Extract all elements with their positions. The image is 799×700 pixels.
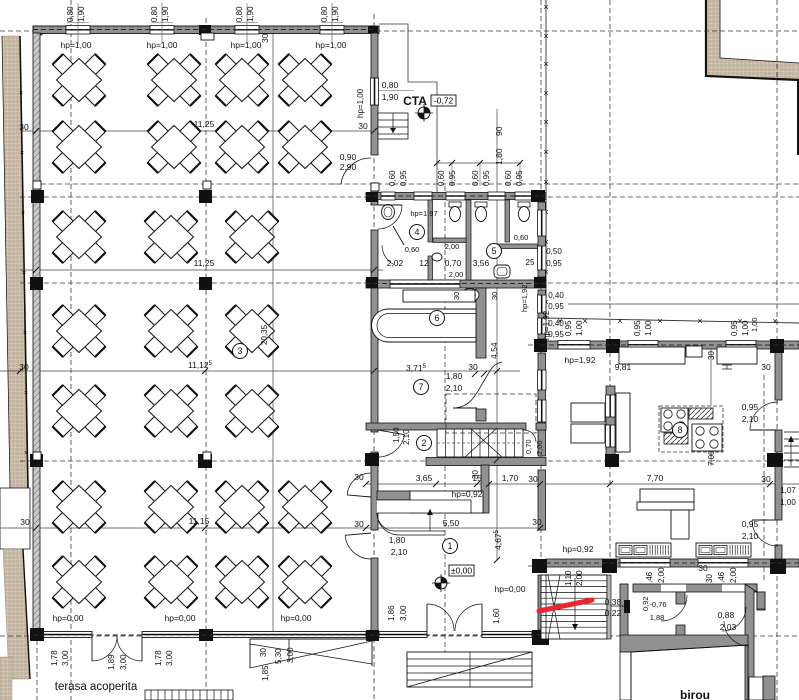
- svg-text:1,85: 1,85: [261, 665, 270, 681]
- svg-text:,46: ,46: [645, 571, 654, 583]
- storage counter: [616, 393, 630, 452]
- svg-text:1,00: 1,00: [741, 320, 750, 336]
- svg-text:hp=1,92: hp=1,92: [520, 285, 529, 312]
- door at stair top: [524, 430, 536, 442]
- svg-text:1,80: 1,80: [389, 535, 406, 545]
- svg-text:hp=0,92: hp=0,92: [452, 489, 483, 499]
- svg-text:1,78: 1,78: [154, 650, 163, 666]
- svg-text:1: 1: [447, 541, 452, 551]
- room1 counter: [377, 491, 483, 535]
- column D6: [532, 559, 547, 573]
- exterior stair E: [784, 432, 799, 467]
- door kitchen right top: [750, 402, 778, 430]
- wall: birou lower band: [620, 635, 748, 652]
- windows top wall: [66, 26, 344, 35]
- table T4-3: [226, 305, 279, 357]
- column F5: [767, 453, 783, 467]
- dim win 150: [150, 6, 170, 22]
- property boundary line with survey marks: [543, 0, 799, 326]
- svg-text:11,25: 11,25: [194, 119, 215, 129]
- svg-text:hp=1,92: hp=1,92: [542, 310, 551, 340]
- cooking island: [659, 406, 723, 452]
- svg-text:×: ×: [543, 147, 548, 157]
- toilet WC1: [449, 202, 461, 222]
- column E5: [605, 454, 619, 467]
- dim bath: [388, 170, 408, 186]
- table T3-3: [226, 211, 279, 263]
- column E4: [606, 339, 620, 353]
- room number 4: [410, 225, 425, 240]
- svg-text:CTA: CTA: [403, 94, 427, 108]
- svg-text:terasa acoperita: terasa acoperita: [55, 681, 138, 693]
- svg-text:2,00: 2,00: [445, 242, 460, 251]
- svg-text:×: ×: [543, 59, 548, 69]
- dim ktop: [564, 320, 584, 336]
- column C2b: [366, 192, 378, 202]
- svg-text:30: 30: [260, 33, 270, 43]
- door room1 left upper: [347, 473, 371, 497]
- svg-text:3,65: 3,65: [416, 473, 433, 483]
- svg-text:birou: birou: [680, 688, 710, 700]
- table T3-2: [145, 211, 198, 263]
- svg-text:×: ×: [543, 117, 548, 127]
- svg-text:×: ×: [697, 316, 702, 326]
- hatched existing wall left band lower: [3, 549, 30, 679]
- wall piece right of stair door: [536, 423, 546, 430]
- room number 7: [414, 380, 429, 395]
- svg-text:1,90: 1,90: [246, 6, 255, 22]
- column E6: [602, 559, 617, 573]
- room number 2: [417, 436, 432, 451]
- svg-text:2,00: 2,00: [575, 570, 584, 586]
- svg-text:12: 12: [419, 258, 429, 268]
- svg-text:30: 30: [259, 648, 268, 657]
- dimension ticks: [17, 128, 773, 563]
- svg-text:4,54: 4,54: [489, 342, 499, 359]
- svg-text:0,95: 0,95: [742, 519, 759, 529]
- survey marks on left boundary: [19, 90, 28, 457]
- svg-text:1,70: 1,70: [502, 473, 519, 483]
- main staircase: [541, 575, 607, 639]
- column D3: [534, 277, 546, 288]
- svg-text:hp=1,00: hp=1,00: [61, 40, 92, 50]
- column A7: [30, 628, 44, 641]
- dim terr1: [50, 650, 70, 666]
- table T5-2: [145, 385, 198, 437]
- svg-text:2,10: 2,10: [742, 531, 759, 541]
- table T7-4: [279, 556, 332, 608]
- svg-text:×: ×: [772, 316, 777, 326]
- wall: right of birou: [757, 592, 765, 610]
- svg-text:0,95: 0,95: [482, 170, 491, 186]
- CTA stairs: [378, 113, 408, 139]
- wall: hall right: [371, 33, 379, 631]
- svg-text:0,70: 0,70: [524, 439, 533, 454]
- table T1-3: [216, 54, 269, 106]
- svg-text:7: 7: [418, 382, 423, 392]
- svg-text:4: 4: [414, 227, 419, 237]
- svg-text:30: 30: [528, 474, 538, 484]
- svg-text:×: ×: [22, 270, 26, 277]
- svg-text:hp=0,00: hp=0,00: [281, 613, 312, 623]
- column D7: [532, 630, 549, 645]
- svg-text:30: 30: [698, 563, 708, 573]
- svg-text:7,70: 7,70: [647, 473, 664, 483]
- kitchen counter top-right: [717, 347, 757, 369]
- svg-text:6: 6: [434, 313, 439, 323]
- svg-text:0,80: 0,80: [66, 6, 75, 22]
- toilet WC2: [475, 202, 487, 222]
- column D4: [534, 339, 547, 352]
- white box in band: [0, 488, 30, 549]
- wall: hall bottom (terrace front): [40, 632, 366, 638]
- svg-text:0,60: 0,60: [405, 245, 420, 254]
- svg-text:hp=1,00: hp=1,00: [231, 40, 262, 50]
- svg-text:11,25: 11,25: [194, 258, 215, 268]
- svg-text:hp=0,00: hp=0,00: [165, 613, 196, 623]
- vent box top wall: [201, 33, 214, 40]
- svg-text:1,00: 1,00: [644, 320, 653, 336]
- existing building top-right hatched wall: [706, 0, 799, 155]
- sink counter K1: [616, 543, 671, 557]
- svg-text:×: ×: [657, 316, 662, 326]
- wall: kitchen bottom: [546, 559, 799, 568]
- svg-text:2,03: 2,03: [720, 622, 737, 632]
- svg-text:0,95: 0,95: [742, 402, 759, 412]
- svg-text:0,88: 0,88: [718, 610, 735, 620]
- dim win 66: [66, 6, 86, 22]
- svg-text:2,00: 2,00: [449, 270, 464, 279]
- wall: birou room left: [620, 652, 631, 700]
- svg-text:1,90: 1,90: [331, 6, 340, 22]
- wall: east side vertical (x~540): [538, 202, 547, 630]
- svg-text:hp=0,00: hp=0,00: [495, 584, 526, 594]
- exterior wall right step: [745, 584, 765, 609]
- column F6: [770, 559, 786, 574]
- wall: room1 bottom segments: [379, 632, 532, 638]
- room number 1: [443, 539, 458, 554]
- svg-text:1,10: 1,10: [564, 570, 573, 586]
- svg-text:1,80: 1,80: [446, 371, 463, 381]
- table T1-1: [53, 54, 106, 106]
- dim bath: [504, 170, 524, 186]
- svg-text:3,00: 3,00: [286, 647, 295, 663]
- svg-text:1,00: 1,00: [780, 498, 796, 507]
- table T6-1: [53, 481, 106, 533]
- table T6-3: [216, 481, 269, 533]
- birou door notch: [749, 677, 763, 700]
- svg-text:30: 30: [19, 122, 29, 132]
- sink counter K2: [696, 543, 751, 557]
- dim ktop: [730, 320, 750, 336]
- dim bath: [471, 170, 491, 186]
- wc lower: [494, 265, 510, 278]
- dim win 235: [235, 6, 255, 22]
- svg-text:1,80: 1,80: [494, 148, 504, 165]
- svg-text:hp=1,00: hp=1,00: [316, 40, 347, 50]
- column B5: [198, 454, 212, 468]
- svg-text:1,88: 1,88: [650, 613, 665, 622]
- wall: birou top: [633, 584, 757, 592]
- sink room4: [382, 205, 395, 220]
- red marker line: [539, 600, 592, 611]
- wall: birou left vertical: [620, 584, 628, 636]
- svg-text:hp=1,97: hp=1,97: [410, 209, 437, 218]
- svg-text:5: 5: [491, 246, 496, 256]
- level box +-0,00: [449, 565, 474, 576]
- wall: kitchen top: [541, 341, 799, 350]
- kitchen counter top-left: [619, 347, 685, 364]
- hatched band bottom-left: [0, 657, 12, 700]
- svg-text:30: 30: [707, 351, 716, 360]
- door hall right y165: [328, 158, 371, 184]
- marker boxes above columns: [203, 181, 211, 189]
- svg-text:0,60: 0,60: [437, 170, 446, 186]
- dim win 320: [320, 6, 340, 22]
- svg-text:0,60: 0,60: [514, 233, 529, 242]
- svg-text:1,50: 1,50: [392, 427, 401, 443]
- svg-text:±0,00: ±0,00: [451, 566, 472, 576]
- svg-text:3,56: 3,56: [473, 258, 490, 268]
- kitchen box: [686, 346, 702, 357]
- svg-text:1,07: 1,07: [780, 486, 796, 495]
- wall: room1 counter wall: [481, 465, 489, 513]
- terrace double door: [92, 636, 142, 661]
- svg-text:30: 30: [358, 121, 368, 131]
- north symbol room1: [432, 574, 450, 592]
- svg-text:1,86: 1,86: [387, 605, 396, 621]
- svg-text:2: 2: [421, 438, 426, 448]
- svg-text:0,22: 0,22: [605, 608, 622, 618]
- svg-text:hp=1,00: hp=1,00: [356, 88, 365, 118]
- table T7-2: [145, 556, 198, 608]
- level box -0,72: [431, 95, 456, 106]
- stair room2: [437, 428, 523, 457]
- svg-text:-0,76: -0,76: [649, 600, 666, 609]
- svg-text:0,95: 0,95: [448, 170, 457, 186]
- svg-text:30: 30: [20, 517, 30, 527]
- svg-text:5,50: 5,50: [443, 518, 460, 528]
- wc small bottom: [461, 289, 479, 302]
- door birou room: [724, 621, 749, 646]
- svg-text:×: ×: [20, 150, 24, 157]
- table T2-1: [53, 121, 106, 173]
- column B3: [199, 277, 212, 290]
- svg-text:0,95: 0,95: [730, 320, 739, 336]
- svg-text:-0,72: -0,72: [434, 96, 454, 106]
- svg-text:0,90: 0,90: [340, 152, 357, 162]
- column D2: [531, 190, 545, 202]
- table T7-1: [53, 556, 106, 608]
- svg-text:×: ×: [543, 2, 548, 12]
- svg-text:1,89: 1,89: [107, 654, 116, 670]
- column A5: [30, 454, 43, 467]
- svg-text:30: 30: [19, 362, 29, 372]
- svg-text:2,10: 2,10: [742, 414, 759, 424]
- column C5: [365, 453, 379, 466]
- svg-text:30: 30: [761, 362, 771, 372]
- svg-text:×: ×: [543, 177, 548, 187]
- svg-text:1,78: 1,78: [50, 650, 59, 666]
- column B7: [199, 629, 213, 641]
- svg-text:30: 30: [471, 470, 480, 479]
- svg-text:2,10: 2,10: [402, 429, 411, 445]
- svg-text:8: 8: [677, 425, 682, 435]
- north symbol CTA: [415, 104, 433, 122]
- svg-text:0,95: 0,95: [548, 302, 564, 311]
- svg-text:2,00: 2,00: [729, 567, 738, 583]
- column top wall C1: [199, 25, 211, 35]
- svg-text:30: 30: [468, 362, 478, 372]
- table T2-2: [148, 121, 201, 173]
- column C3: [366, 277, 378, 288]
- svg-text:7,00: 7,00: [707, 450, 716, 466]
- kitchen mid counters: [637, 489, 694, 539]
- wall: east exterior (x~778): [775, 349, 782, 559]
- svg-text:,46: ,46: [717, 571, 726, 583]
- wall: birou right vertical: [745, 584, 754, 700]
- table T7-3: [216, 556, 269, 608]
- door kitchen right bottom: [752, 520, 778, 546]
- wall stub below room6: [476, 409, 486, 421]
- svg-text:30: 30: [705, 574, 714, 583]
- column C7: [366, 630, 379, 641]
- svg-text:2⁠0,35: 2⁠0,35: [260, 324, 269, 345]
- ramp at terrace: [250, 639, 372, 668]
- wall: room2 top: [366, 423, 526, 430]
- svg-text:90: 90: [494, 126, 504, 136]
- svg-text:1,90: 1,90: [77, 6, 86, 22]
- svg-text:30: 30: [532, 517, 542, 527]
- svg-text:0,40: 0,40: [548, 291, 564, 300]
- svg-text:0,60: 0,60: [388, 170, 397, 186]
- room6 bar counter: [372, 309, 477, 342]
- svg-text:3,00: 3,00: [119, 654, 128, 670]
- svg-text:0,38: 0,38: [605, 597, 622, 607]
- svg-text:3,00: 3,00: [399, 605, 408, 621]
- svg-text:9,81: 9,81: [615, 362, 632, 372]
- svg-text:2,90: 2,90: [340, 162, 357, 172]
- column top wall C2: [368, 26, 378, 33]
- wall: birou mid vertical: [676, 592, 685, 636]
- table T5-3: [226, 385, 279, 437]
- svg-text:3: 3: [237, 346, 242, 356]
- room number 3: [233, 344, 248, 359]
- toilet WC3: [518, 202, 530, 222]
- door birou 2: [722, 607, 746, 631]
- door room4: [382, 226, 404, 264]
- svg-text:0,80: 0,80: [382, 80, 399, 90]
- svg-text:0,95: 0,95: [546, 259, 562, 268]
- svg-text:30: 30: [761, 474, 771, 484]
- door hall right y215: [378, 205, 402, 229]
- svg-text:2,00: 2,00: [657, 567, 666, 583]
- svg-text:3,00: 3,00: [61, 650, 70, 666]
- table T4-1: [53, 305, 106, 357]
- wall: room6 partition: [476, 288, 486, 358]
- svg-text:×: ×: [543, 88, 548, 98]
- table T3-1: [53, 211, 106, 263]
- svg-text:0,95: 0,95: [564, 320, 573, 336]
- wall: hall left: [33, 33, 40, 631]
- svg-text:0,60: 0,60: [504, 170, 513, 186]
- storage shelves left: [571, 403, 605, 443]
- column B2: [199, 190, 212, 203]
- room6 shelf: [403, 290, 475, 302]
- door birou 1: [661, 595, 687, 621]
- svg-text:2,00: 2,00: [535, 440, 544, 455]
- wall: hall top: [33, 26, 379, 34]
- svg-text:30: 30: [354, 519, 364, 529]
- wall corner cap top-left: [33, 26, 42, 35]
- svg-text:×: ×: [543, 31, 548, 41]
- svg-text:0,80: 0,80: [320, 6, 329, 22]
- svg-text:5,30: 5,30: [274, 648, 283, 664]
- table T1-4: [279, 54, 332, 106]
- svg-text:30: 30: [490, 292, 499, 300]
- terrace stair left: [145, 690, 233, 700]
- svg-text:2,10: 2,10: [446, 383, 463, 393]
- svg-text:2,02: 2,02: [387, 258, 404, 268]
- exterior stair SW: [407, 652, 532, 687]
- svg-text:0,60: 0,60: [471, 170, 480, 186]
- svg-text:0,80: 0,80: [235, 6, 244, 22]
- room1 double door: [427, 604, 482, 631]
- door post 0,38: [607, 600, 630, 613]
- CTA room outline: [379, 24, 437, 192]
- door room1 left lower: [345, 533, 371, 559]
- svg-text:×: ×: [24, 390, 28, 397]
- dim ktop: [633, 320, 653, 336]
- svg-text:0,95: 0,95: [399, 170, 408, 186]
- door room2: [378, 430, 405, 457]
- table T4-2: [145, 305, 198, 357]
- svg-text:3,00: 3,00: [165, 650, 174, 666]
- room number 8: [673, 423, 688, 438]
- hatched existing wall left band: [2, 36, 28, 488]
- sink room5: [432, 253, 442, 261]
- table T5-1: [53, 385, 106, 437]
- table T6-4: [279, 481, 332, 533]
- column A3: [30, 277, 43, 290]
- svg-text:hp=0,00: hp=0,00: [53, 613, 84, 623]
- svg-text:0,95: 0,95: [633, 320, 642, 336]
- svg-text:1,00: 1,00: [575, 320, 584, 336]
- table T6-2: [145, 481, 198, 533]
- svg-text:25: 25: [526, 258, 535, 267]
- svg-text:0,70: 0,70: [445, 258, 462, 268]
- svg-text:0,95: 0,95: [515, 170, 524, 186]
- table T2-4: [279, 121, 332, 173]
- svg-text:×: ×: [617, 316, 622, 326]
- svg-text:1,90: 1,90: [161, 6, 170, 22]
- skylight dashed outline: [446, 394, 536, 433]
- svg-text:0,80: 0,80: [150, 6, 159, 22]
- wall: bathroom partitions: [428, 200, 538, 280]
- wall: bathroom top: [366, 192, 546, 200]
- svg-text:1,90: 1,90: [382, 92, 399, 102]
- wall: storage partition: [606, 386, 615, 455]
- table T1-2: [148, 54, 201, 106]
- door room7 s-curve: [453, 362, 502, 408]
- svg-text:30: 30: [452, 292, 461, 300]
- svg-text:hp=0,92: hp=0,92: [563, 544, 594, 554]
- wall: far right bottom: [763, 676, 775, 700]
- svg-text:×: ×: [19, 90, 23, 97]
- room number 5: [487, 244, 502, 259]
- svg-text:1,60: 1,60: [492, 608, 501, 624]
- svg-text:0,50: 0,50: [546, 247, 562, 256]
